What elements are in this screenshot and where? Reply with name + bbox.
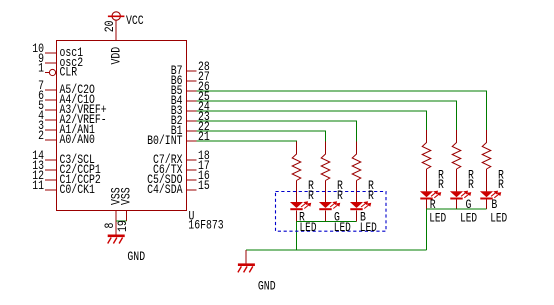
wire from pin 21/B0 to resistor xyxy=(197,140,297,143)
svg-text:LED: LED xyxy=(360,220,377,235)
pin 6 (A4/C1O) stub xyxy=(45,99,56,101)
svg-text:GND: GND xyxy=(258,278,276,293)
wire: common ground rail xyxy=(246,249,426,251)
svg-text:16F873: 16F873 xyxy=(188,218,223,233)
svg-text:CLR: CLR xyxy=(60,64,78,79)
svg-text:LED: LED xyxy=(429,210,446,225)
ground (under chip, VSS pins) xyxy=(108,235,125,244)
VCC power symbol xyxy=(108,12,125,20)
pin 24 (B3) stub xyxy=(187,110,197,112)
wire resistor R4 to LED xyxy=(426,169,428,192)
svg-text:R: R xyxy=(438,177,444,192)
svg-text:11: 11 xyxy=(32,178,44,193)
svg-text:LED: LED xyxy=(334,220,351,235)
svg-text:C0/CK1: C0/CK1 xyxy=(60,182,96,197)
pin 1 CLR inverter circle xyxy=(49,69,55,75)
svg-text:R: R xyxy=(468,177,474,192)
svg-text:2: 2 xyxy=(38,128,44,143)
svg-text:C4/SDA: C4/SDA xyxy=(147,182,183,197)
svg-text:19: 19 xyxy=(115,220,130,232)
svg-text:GND: GND xyxy=(127,249,145,264)
wire: left group drop to ground rail xyxy=(296,222,298,251)
svg-text:LED: LED xyxy=(490,210,507,225)
svg-text:20: 20 xyxy=(102,21,117,33)
resistor R6 xyxy=(482,130,491,169)
wire from pin 26/B5 to resistor xyxy=(197,91,487,130)
resistor R3 xyxy=(352,142,361,181)
resistor R2 xyxy=(321,142,330,181)
wire: right LED group cathode bus xyxy=(427,208,487,210)
pin 12 (C1/CCP2) stub xyxy=(45,179,56,181)
pin 8 VSS stub xyxy=(115,211,117,236)
svg-text:VCC: VCC xyxy=(126,13,144,28)
wire resistor R3 to LED xyxy=(356,181,358,203)
pin 28 (B7) stub xyxy=(187,70,197,72)
pin 25 (B4) stub xyxy=(187,100,197,102)
svg-text:LED: LED xyxy=(460,210,477,225)
svg-text:15: 15 xyxy=(198,178,210,193)
pin 26 (B5) stub xyxy=(187,90,197,92)
resistor R5 xyxy=(452,130,461,169)
pin 21 (B0/INT) stub xyxy=(187,140,197,142)
svg-text:R: R xyxy=(368,188,374,203)
svg-text:B0/INT: B0/INT xyxy=(147,133,183,148)
wire resistor R5 to LED xyxy=(456,169,458,192)
pin 5 (A3/VREF+) stub xyxy=(45,109,56,111)
wire: left LED group cathode bus xyxy=(297,221,357,223)
ground (LED return) symbol xyxy=(238,263,255,272)
pin 11 (C0/CK1) stub xyxy=(45,189,56,191)
svg-text:LED: LED xyxy=(300,220,317,235)
wire from pin 22/B1 to resistor xyxy=(197,131,326,142)
pin 18 (C7/RX) stub xyxy=(187,159,197,161)
svg-text:A0/AN0: A0/AN0 xyxy=(60,132,95,147)
svg-text:VDD: VDD xyxy=(109,47,124,65)
pin 13 (C2/CCP1) stub xyxy=(45,169,56,171)
wire from pin 25/B4 to resistor xyxy=(197,101,457,130)
wire joining VSS pins 8 and 19 xyxy=(116,220,126,222)
svg-text:R: R xyxy=(337,188,343,203)
pin 7 (A5/C2O) stub xyxy=(45,89,56,91)
pin 20 VDD stub xyxy=(115,20,117,41)
LED D1 (R) xyxy=(290,202,310,222)
svg-text:VSS: VSS xyxy=(118,187,133,205)
resistor R4 xyxy=(422,130,431,169)
IC U (PIC 16F873) chip body outline xyxy=(57,41,187,211)
LED D4 (R) xyxy=(420,191,440,209)
svg-text:R: R xyxy=(498,177,504,192)
wire: right group drop to ground rail xyxy=(426,209,428,250)
pin 15 (C4/SDA) stub xyxy=(187,189,197,191)
pin 17 (C6/TX) stub xyxy=(187,169,197,171)
LED D3 (B) xyxy=(350,202,370,222)
svg-text:R: R xyxy=(308,188,314,203)
resistor R1 xyxy=(292,142,301,181)
pin 4 (A2/VREF-) stub xyxy=(45,119,56,121)
pin 19 VSS stub xyxy=(126,211,128,222)
svg-text:1: 1 xyxy=(38,60,44,75)
wire from pin 23/B2 to resistor xyxy=(197,121,357,142)
wire resistor R6 to LED xyxy=(486,169,488,192)
LED D6 (B) xyxy=(480,191,500,209)
wire from pin 24/B3 to resistor xyxy=(197,111,427,130)
pin 22 (B1) stub xyxy=(187,130,197,132)
pin 1 (CLR) stub xyxy=(45,72,49,74)
pin 3 (A1/AN1) stub xyxy=(45,129,56,131)
pin 9 (osc2) stub xyxy=(45,62,56,64)
pin 2 (A0/AN0) stub xyxy=(45,139,56,141)
RGB LED module dashed outline xyxy=(276,192,387,232)
LED D2 (G) xyxy=(319,202,339,222)
LED D5 (G) xyxy=(450,191,470,209)
wire resistor R2 to LED xyxy=(325,181,327,203)
pin 10 (osc1) stub xyxy=(45,52,56,54)
ground (LED return) lead xyxy=(245,250,247,264)
wire resistor R1 to LED xyxy=(296,181,298,203)
pin 16 (C5/SDO) stub xyxy=(187,179,197,181)
pin 14 (C3/SCL) stub xyxy=(45,159,56,161)
pin 27 (B6) stub xyxy=(187,80,197,82)
pin 23 (B2) stub xyxy=(187,120,197,122)
svg-text:21: 21 xyxy=(198,129,210,144)
